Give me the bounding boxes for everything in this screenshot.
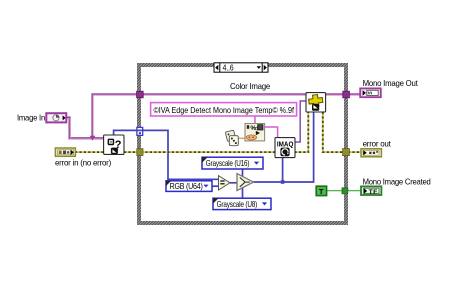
svg-text:Grayscale (U8): Grayscale (U8): [217, 199, 258, 209]
svg-text:4..6: 4..6: [223, 64, 234, 73]
svg-text:©IVA Edge Detect Mono Image Te: ©IVA Edge Detect Mono Image Temp© %.9f: [154, 106, 295, 115]
svg-text:error in (no error): error in (no error): [55, 158, 111, 168]
svg-text:Mono Image Out: Mono Image Out: [363, 78, 419, 88]
svg-text:Mono Image Created: Mono Image Created: [363, 176, 432, 186]
svg-text:TF: TF: [369, 189, 378, 196]
svg-text:error out: error out: [363, 138, 392, 148]
svg-text:IMAQ: IMAQ: [277, 142, 294, 149]
svg-text:Grayscale (U16): Grayscale (U16): [206, 158, 250, 168]
svg-text:RGB (U64): RGB (U64): [170, 181, 203, 191]
svg-text:T: T: [319, 187, 324, 196]
svg-text:Image In: Image In: [17, 112, 46, 122]
svg-text:Color Image: Color Image: [230, 81, 271, 91]
